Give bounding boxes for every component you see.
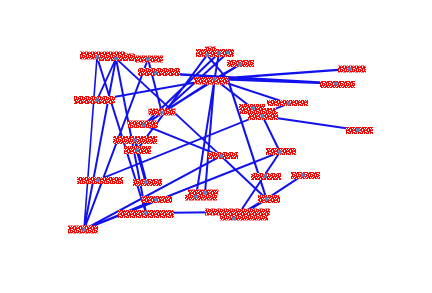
edge N24-N1 (84, 57, 97, 230)
node dot N25 (219, 154, 223, 158)
label node N27 (251, 173, 281, 180)
label node N25 (208, 152, 238, 159)
node dot N18 (135, 148, 139, 152)
edge N8-N15 (162, 79, 215, 113)
label node N26 (266, 148, 296, 155)
label node N13a (239, 104, 265, 110)
edge N24-N3 (84, 59, 148, 230)
edge N24-N2 (84, 59, 116, 230)
edge N2-N22 (116, 59, 146, 214)
label node N22 (118, 210, 174, 218)
node dot N14 (261, 114, 265, 118)
edge N24-N26 (84, 152, 280, 230)
label node N15 (149, 109, 176, 116)
label node N16 (128, 121, 158, 129)
label node N9 (338, 66, 366, 73)
label node N29 extra char (214, 190, 219, 195)
node dot N20 (144, 180, 148, 184)
edge N8b-N30 (228, 80, 267, 199)
node dot N21 (154, 198, 158, 202)
edge N2-N25 (116, 59, 221, 157)
label node N31 (205, 209, 270, 216)
edge N8-N4c (215, 65, 241, 80)
label node N5 (138, 68, 180, 76)
edge N4d-N15 (162, 53, 228, 113)
label node N19 (77, 177, 123, 184)
node dot N9 (348, 67, 352, 71)
label node N12 (267, 100, 308, 106)
edge N24-N25 (84, 156, 221, 230)
label node N29b (185, 195, 217, 201)
label node N14 (248, 112, 278, 120)
edge N4a-N18 (137, 55, 207, 150)
node dot N4c (238, 63, 242, 67)
edge N26-N31 (240, 152, 280, 212)
edge N11-N14 (262, 116, 358, 130)
label node N17 (113, 136, 157, 144)
label node N30 (258, 195, 280, 203)
node dot N5 (154, 71, 158, 75)
label node N4a/N4b (196, 49, 234, 57)
node dot N4b (217, 51, 221, 55)
label node N29a (188, 190, 216, 196)
edge N12-N19 (98, 104, 289, 181)
edge N5-N10 (156, 73, 336, 84)
edge N3-N15 (148, 59, 162, 113)
node dot N12 (287, 102, 291, 106)
edge N14-N26 (262, 116, 280, 152)
edge N18-N20 (137, 150, 146, 182)
node dot N19 (96, 178, 100, 182)
edge N28-N30 (267, 175, 304, 199)
edge N1-N3 (97, 57, 148, 59)
label node N8 hub (194, 77, 229, 85)
edge N8-N4b (215, 53, 220, 79)
node dot N28 (301, 173, 305, 177)
node dot N11 (356, 128, 360, 132)
node dot N13 (251, 106, 255, 110)
edge N8-N29a (205, 79, 215, 193)
edge N1-N22 (97, 57, 146, 213)
node dot N29b (194, 195, 198, 199)
edge N16-N25 (144, 125, 221, 156)
edge N24-N21 (84, 200, 156, 230)
edge N25-N30 (221, 156, 267, 199)
edge N8-N10 (215, 79, 337, 84)
node dot N1 (95, 55, 99, 59)
edge N8b-N4a (207, 55, 228, 80)
node dot N2 (114, 57, 118, 61)
node dot N24 (82, 228, 86, 232)
label node N20 (133, 179, 162, 186)
node dot N8 hub (213, 77, 217, 81)
edge N4b-N16 (144, 53, 219, 125)
edge N8-N9 (215, 69, 351, 79)
edge N8-N12 (215, 79, 289, 104)
node dot N22 (144, 211, 148, 215)
label node N18 (124, 146, 151, 154)
label node N28 (291, 172, 320, 179)
edge N8-N16 (144, 79, 215, 125)
label node N6 (74, 96, 115, 104)
node dot N32 (232, 217, 236, 221)
node dot N30 (265, 197, 269, 201)
edge N8-N6 (97, 79, 215, 100)
label node N4a upper part (205, 47, 216, 52)
node dot N17 (133, 138, 137, 142)
edge N4c-N15 (162, 65, 240, 113)
label node N11 (346, 127, 373, 134)
node dot N16 (142, 123, 146, 127)
label node N2 (98, 54, 135, 62)
edge N30-N32 (234, 199, 267, 219)
edge N8-N14 (215, 79, 263, 116)
node dot N3 (146, 57, 150, 61)
node dot N10 (334, 82, 338, 86)
node dot N29a (203, 191, 207, 195)
label node N13b (240, 108, 276, 114)
edge N2-N6 (97, 59, 116, 101)
node dot N15 (160, 111, 164, 115)
node dot N27 (263, 174, 267, 178)
edge N22-N31 (146, 212, 240, 213)
label node N4c (227, 60, 254, 67)
label node N1 (80, 52, 125, 60)
label node N24 (68, 226, 98, 234)
node dot N4a (205, 53, 209, 57)
label node N32 (220, 214, 268, 221)
node dot N26 (278, 150, 282, 154)
node dot N6 (95, 98, 99, 102)
edge N8-N29b (196, 79, 215, 197)
label node N21 (141, 196, 172, 203)
label node N10 (320, 81, 355, 88)
label node N3 (135, 56, 163, 63)
node dot N4d (226, 51, 230, 55)
edge N17-N20 (135, 140, 146, 182)
